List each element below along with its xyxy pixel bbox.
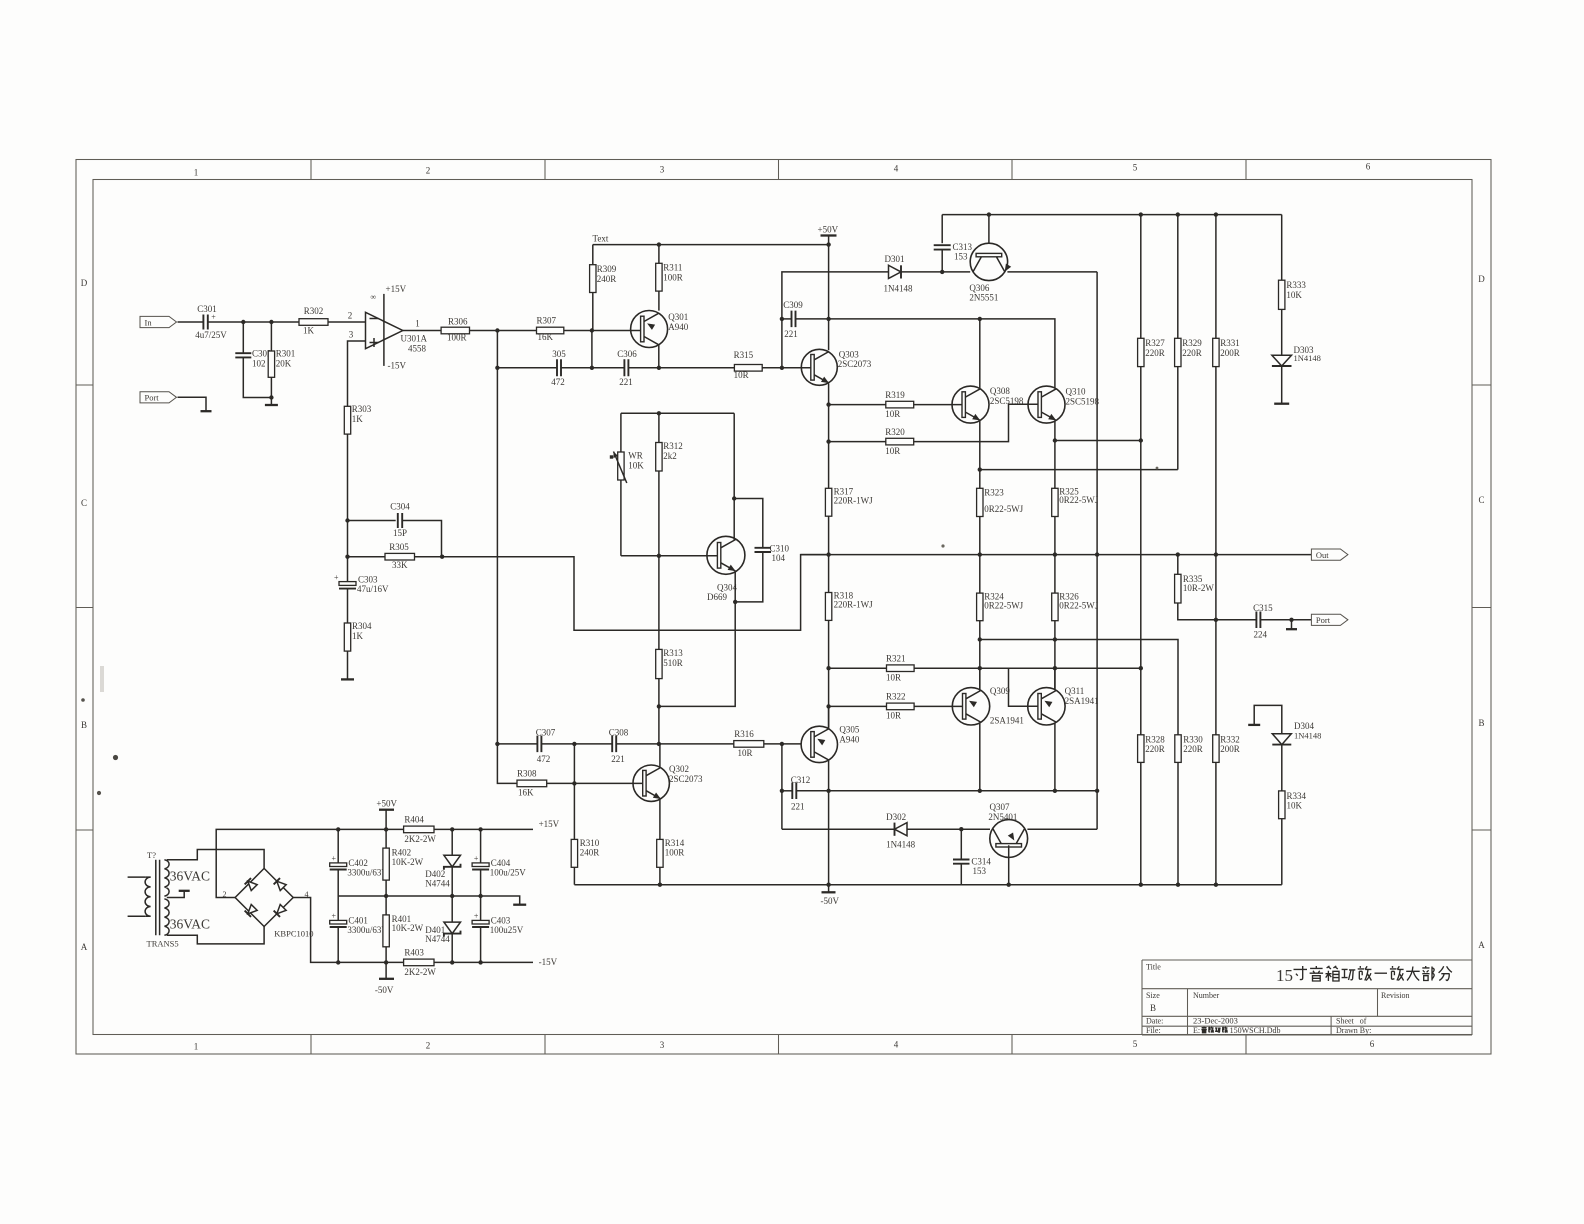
svg-text:1N4148: 1N4148 <box>886 839 915 849</box>
node junction rail R329 <box>1176 212 1180 216</box>
svg-text:102: 102 <box>252 358 266 368</box>
capacitor C312 <box>782 775 829 812</box>
resistor R313 <box>656 556 684 744</box>
svg-text:10R-2W: 10R-2W <box>1183 583 1215 593</box>
svg-text:16K: 16K <box>518 788 534 798</box>
node junction rail R317-R318 <box>826 552 830 556</box>
capacitor C308 <box>574 728 659 765</box>
svg-text:N4744: N4744 <box>425 934 450 944</box>
wire Q304 emitter down <box>659 572 735 707</box>
node junction C401 bottom <box>336 960 340 964</box>
wire R327 tie <box>1055 440 1141 442</box>
svg-text:104: 104 <box>772 553 786 563</box>
svg-text:240R: 240R <box>597 274 617 284</box>
resistor R308 <box>517 769 645 798</box>
ground under R301 <box>265 398 278 406</box>
node junction rail R331 <box>1214 212 1218 216</box>
wire C312 branch vertical <box>781 744 783 829</box>
wire long vertical Q306-Q307 <box>1096 272 1098 829</box>
transistor Q308 <box>952 386 1024 423</box>
wire Q303 emitter down <box>828 384 830 489</box>
svg-text:C307: C307 <box>536 728 556 738</box>
grid row labels right <box>1478 274 1485 950</box>
svg-text:2SC2073: 2SC2073 <box>838 359 872 369</box>
svg-text:TRANS5: TRANS5 <box>147 939 179 949</box>
svg-text:C314: C314 <box>971 857 991 867</box>
svg-text:200R: 200R <box>1220 348 1240 358</box>
resistor R332 <box>1213 620 1240 885</box>
svg-text:Q301: Q301 <box>668 312 688 322</box>
node junction R309 bottom on base wire <box>590 328 594 332</box>
svg-text:0R22-5WJ: 0R22-5WJ <box>984 504 1023 514</box>
node junction R321 wire Q311 emitter <box>1053 666 1057 670</box>
svg-text:Q303: Q303 <box>839 350 859 360</box>
svg-text:Date:: Date: <box>1146 1017 1163 1026</box>
capacitor C310 <box>734 499 789 602</box>
resistor R303 <box>344 404 372 434</box>
svg-text:220R: 220R <box>1145 744 1165 754</box>
transformer TRANS5 <box>128 850 210 949</box>
ground under D303 <box>1274 403 1289 405</box>
wire Q309-Q311 collector bus <box>829 790 1098 792</box>
node junction D402 top <box>450 827 454 831</box>
svg-text:10K-2W: 10K-2W <box>392 923 424 933</box>
svg-text:100R: 100R <box>447 333 467 343</box>
svg-text:23-Dec-2003: 23-Dec-2003 <box>1193 1016 1238 1026</box>
svg-text:R303: R303 <box>352 404 372 414</box>
svg-text:20K: 20K <box>276 358 292 368</box>
diode D303 <box>1272 345 1321 366</box>
resistor R311 <box>656 245 683 311</box>
svg-text:C303: C303 <box>358 575 378 585</box>
resistor R324 <box>977 555 1024 690</box>
svg-text:R404: R404 <box>404 815 424 825</box>
node junction collector bus Q309 <box>978 789 982 793</box>
port Out <box>1311 549 1348 560</box>
wire secondary top to bridge <box>167 850 264 869</box>
ground at mid rail <box>513 904 526 906</box>
svg-text:T?: T? <box>147 850 156 860</box>
power +50V (supply) <box>376 799 397 849</box>
wire R306 node down to R308 <box>497 744 517 784</box>
svg-text:Text: Text <box>593 234 609 244</box>
svg-text:150WSCH.Ddb: 150WSCH.Ddb <box>1230 1026 1281 1035</box>
svg-text:C315: C315 <box>1253 603 1273 613</box>
grid column labels top <box>194 162 1371 178</box>
svg-text:D669: D669 <box>707 592 727 602</box>
port Port (right) <box>1311 614 1348 625</box>
resistor R314 <box>657 838 685 885</box>
file path text <box>1193 1026 1280 1035</box>
svg-text:4: 4 <box>894 1040 899 1050</box>
svg-text:R319: R319 <box>885 390 905 400</box>
node junction C403 bottom <box>478 960 482 964</box>
resistor R335 <box>1175 555 1216 620</box>
wire +50V to Q303 collector <box>828 236 830 351</box>
svg-text:R321: R321 <box>886 654 906 664</box>
svg-text:Q305: Q305 <box>839 725 859 735</box>
svg-text:1N4148: 1N4148 <box>1294 730 1321 740</box>
resistor R322 <box>829 692 963 721</box>
capacitor C303 <box>334 557 389 623</box>
node junction C313 bottom <box>940 270 944 274</box>
wire Q306 emitter to long vertical <box>1007 271 1097 273</box>
wire R307 to Q301 base <box>564 330 643 332</box>
node junction Q308 emitter R329 tie <box>978 467 982 471</box>
node junction bottom rail R332 <box>1214 883 1218 887</box>
wire Q302 collector up <box>659 744 661 768</box>
capacitor C302 <box>235 322 271 398</box>
node junction C309 right on collector line <box>826 317 830 321</box>
svg-text:510R: 510R <box>663 658 683 668</box>
wire op-amp output to R306 <box>403 330 441 332</box>
svg-text:3: 3 <box>349 330 354 340</box>
resistor R321 <box>829 654 1141 683</box>
resistor R329 <box>1175 215 1203 470</box>
node junction under R301 <box>269 395 273 399</box>
title block <box>1142 960 1472 1035</box>
transistor Q310 <box>1028 386 1100 423</box>
svg-text:100R: 100R <box>665 848 685 858</box>
svg-text:0R22-5WJ: 0R22-5WJ <box>1059 600 1098 610</box>
node junction C310 top tap <box>732 496 736 500</box>
svg-text:-50V: -50V <box>375 985 394 995</box>
transistor Q305 <box>801 725 860 763</box>
svg-text:2: 2 <box>426 1041 431 1051</box>
svg-text:Port: Port <box>145 393 160 403</box>
transistor Q301 <box>631 311 689 348</box>
svg-text:Sheet of: Sheet of <box>1336 1017 1367 1026</box>
node junction C315 wire R332 <box>1214 618 1218 622</box>
node junction rail R325-R326 <box>1053 552 1057 556</box>
svg-text:R307: R307 <box>537 316 557 326</box>
svg-text:B: B <box>1150 1003 1156 1013</box>
svg-text:D: D <box>1478 274 1485 284</box>
wire D302 to Q307 base <box>907 828 990 830</box>
capacitor C403 <box>472 896 524 962</box>
node junction collector bus x829 <box>826 789 830 793</box>
port Port (left) <box>140 392 177 403</box>
svg-text:C306: C306 <box>617 349 637 359</box>
svg-text:4u7/25V: 4u7/25V <box>195 330 227 340</box>
capacitor C301 <box>195 304 227 340</box>
node junction Q310 emitter R327 tie <box>1053 438 1057 442</box>
node junction rail R327 <box>1139 212 1143 216</box>
resistor R403 <box>404 948 533 978</box>
svg-text:2N5551: 2N5551 <box>969 293 998 303</box>
node junction C308 right Q302 collector <box>657 742 661 746</box>
node junction C304 tap <box>345 518 349 522</box>
node junction D401 bottom <box>450 960 454 964</box>
svg-text:R320: R320 <box>885 427 905 437</box>
node junction R322 left <box>826 704 830 708</box>
resistor R301 <box>268 322 295 398</box>
node junction bottom rail Q307 <box>1007 883 1011 887</box>
power -15V label <box>539 957 558 967</box>
wire WR-R312 top <box>621 412 734 414</box>
resistor R318 <box>825 590 873 727</box>
svg-text:5: 5 <box>1133 163 1138 173</box>
svg-text:Drawn By:: Drawn By: <box>1336 1026 1371 1035</box>
svg-text:220R: 220R <box>1182 348 1202 358</box>
svg-text:2K2-2W: 2K2-2W <box>404 834 436 844</box>
svg-text:33K: 33K <box>392 560 408 570</box>
diode D302 <box>782 812 916 849</box>
svg-text:224: 224 <box>1254 630 1268 640</box>
wire vertical from R306 node down <box>496 331 498 744</box>
svg-text:2: 2 <box>348 311 353 321</box>
wire D301 anode branch <box>782 272 889 368</box>
node junction C314 top <box>959 827 963 831</box>
node junction R321 wire Q309 emitter <box>978 666 982 670</box>
node junction mid rail C404-C403 <box>478 894 482 898</box>
svg-text:47u/16V: 47u/16V <box>357 584 389 594</box>
resistor R312 <box>656 413 683 556</box>
svg-text:2N5401: 2N5401 <box>988 812 1017 822</box>
wire R309 node to C305 wire <box>591 331 593 368</box>
wire bridge minus to -50V rail <box>293 898 403 963</box>
resistor R328 <box>1138 668 1166 885</box>
svg-text:10K-2W: 10K-2W <box>392 857 424 867</box>
node junction +50V on +15V rail <box>384 827 388 831</box>
capacitor C309 <box>782 300 829 339</box>
node junction Q304 emitter / C310 <box>733 600 737 604</box>
svg-text:+: + <box>334 573 339 582</box>
wire R330 tie <box>980 640 1178 735</box>
wire Port to ground <box>178 397 207 410</box>
svg-text:240R: 240R <box>580 848 600 858</box>
node junction collector bus Q311 <box>1053 789 1057 793</box>
svg-text:D302: D302 <box>886 812 906 822</box>
svg-text:B: B <box>1478 718 1484 728</box>
svg-text:15: 15 <box>1276 966 1293 985</box>
svg-text:305: 305 <box>552 349 566 359</box>
svg-text:C: C <box>81 498 87 508</box>
wire ground to D304 anode <box>1254 705 1282 733</box>
wire Q302 emitter to R314 <box>659 799 661 839</box>
svg-text:1K: 1K <box>352 414 364 424</box>
resistor R310 <box>571 838 600 885</box>
svg-text:R330: R330 <box>1183 734 1203 744</box>
svg-text:Q308: Q308 <box>990 386 1010 396</box>
capacitor C304 <box>348 502 442 557</box>
svg-text:Size: Size <box>1146 991 1160 1000</box>
svg-text:2SA1941: 2SA1941 <box>1065 696 1099 706</box>
svg-text:472: 472 <box>551 377 565 387</box>
svg-text:10R: 10R <box>885 446 900 456</box>
node junction R320 left <box>826 439 830 443</box>
grid row labels left <box>81 278 88 952</box>
svg-text:10R: 10R <box>886 672 901 682</box>
svg-text:R333: R333 <box>1286 280 1306 290</box>
wire secondary bottom to bridge <box>167 927 264 944</box>
svg-text:+50V: +50V <box>818 225 839 235</box>
node junction R321 wire R328 tie <box>1139 666 1143 670</box>
node junction at C302 tap <box>241 320 245 324</box>
wire Q311 base jog <box>1009 668 1038 706</box>
potentiometer WR <box>610 413 645 556</box>
node junction rail R323-R324 <box>978 552 982 556</box>
node junction C305-C306 <box>590 366 594 370</box>
resistor R302 <box>299 306 328 336</box>
node junction C305 wire left <box>495 366 499 370</box>
svg-text:C313: C313 <box>953 242 973 252</box>
node junction rail long vertical <box>1095 552 1099 556</box>
resistor R319 <box>829 390 963 419</box>
svg-text:D301: D301 <box>885 254 905 264</box>
svg-text:+: + <box>474 912 479 921</box>
port In <box>140 316 177 327</box>
svg-text:Q307: Q307 <box>990 802 1010 812</box>
wire C301 to R302 <box>208 321 299 323</box>
svg-text:R314: R314 <box>665 838 685 848</box>
svg-text:Q309: Q309 <box>990 686 1010 696</box>
wire D301 cathode to Q306 base wire <box>901 271 970 273</box>
svg-text:Title: Title <box>1146 963 1161 972</box>
node junction mid rail D402-D401 <box>450 894 454 898</box>
svg-text:R313: R313 <box>663 648 683 658</box>
capacitor C313 <box>934 215 973 272</box>
svg-text:200R: 200R <box>1220 744 1240 754</box>
node junction R311 top <box>657 242 661 246</box>
wire op-amp pin3 <box>348 341 366 406</box>
svg-text:2SC5198: 2SC5198 <box>1066 396 1100 406</box>
node junction C307-C308 <box>572 742 576 746</box>
ground at Port <box>201 410 212 412</box>
svg-text:3: 3 <box>660 165 665 175</box>
wire Q309 collector down <box>979 723 981 791</box>
resistor R323 <box>977 488 1024 555</box>
svg-text:+15V: +15V <box>539 819 560 829</box>
node junction bottom rail R330 <box>1176 883 1180 887</box>
svg-text:1: 1 <box>194 168 199 178</box>
wire Q306 base to top rail <box>988 215 990 244</box>
transistor Q304 <box>707 536 745 602</box>
svg-text:100u/25V: 100u/25V <box>490 867 527 877</box>
resistor R320 <box>829 404 1038 456</box>
svg-text:+15V: +15V <box>386 284 407 294</box>
op-amp U301A <box>366 284 428 371</box>
svg-text:Port: Port <box>1316 615 1331 625</box>
wire Q304 collector up <box>733 413 735 540</box>
svg-text:0R22-5WJ: 0R22-5WJ <box>984 600 1023 610</box>
svg-text:220R: 220R <box>1145 348 1165 358</box>
resistor R402 <box>383 848 424 915</box>
svg-text:A940: A940 <box>668 322 688 332</box>
grid column labels bottom <box>194 1039 1138 1052</box>
wire output rail <box>801 554 1312 556</box>
wire feedback jog from R305 to output rail <box>442 555 828 631</box>
node junction R312 top <box>657 411 661 415</box>
pin 1 label <box>415 319 420 329</box>
node junction C312 left <box>780 789 784 793</box>
svg-text:3: 3 <box>660 1040 665 1050</box>
node junction R306 output <box>495 328 499 332</box>
svg-text:A: A <box>1478 940 1485 950</box>
transistor Q302 <box>633 764 703 802</box>
node junction R305 left <box>345 555 349 559</box>
svg-text:A940: A940 <box>839 734 859 744</box>
wire Q308 collector up <box>979 319 981 388</box>
wire Q304 base net <box>621 555 718 557</box>
resistor R307 <box>537 316 564 343</box>
wire Q309 emitter up <box>979 668 981 690</box>
svg-text:1K: 1K <box>303 326 315 336</box>
svg-text:100u25V: 100u25V <box>490 925 524 935</box>
node junction C309 left <box>780 317 784 321</box>
node junction R308 wire x574 <box>572 781 576 785</box>
svg-text:R309: R309 <box>597 264 617 274</box>
capacitor C315 <box>1216 603 1312 640</box>
node junction bottom rail -50V <box>826 883 830 887</box>
svg-text:Number: Number <box>1193 991 1220 1000</box>
svg-text:C301: C301 <box>197 304 217 314</box>
capacitor C401 <box>330 896 389 962</box>
svg-text:Out: Out <box>1316 550 1329 560</box>
resistor R404 <box>404 815 533 845</box>
svg-text:R331: R331 <box>1220 338 1240 348</box>
node junction at R301 tap <box>269 320 273 324</box>
node junction rail R335 <box>1176 552 1180 556</box>
node junction C315 ground tap <box>1289 618 1293 622</box>
svg-text:∞: ∞ <box>371 293 377 302</box>
svg-text:220R-1WJ: 220R-1WJ <box>834 496 873 506</box>
resistor R333 <box>1279 215 1307 356</box>
svg-text:36VAC: 36VAC <box>170 917 210 932</box>
svg-text:C308: C308 <box>609 728 629 738</box>
svg-text:R311: R311 <box>663 263 682 273</box>
svg-text:0R22-5WJ: 0R22-5WJ <box>1059 495 1098 505</box>
title text 15寸音箱功放-放大部分 <box>1276 966 1452 985</box>
resistor R325 <box>1052 486 1099 554</box>
node junction C404 top <box>478 827 482 831</box>
power -50V (amplifier) <box>821 885 840 906</box>
capacitor C314 <box>953 829 991 885</box>
svg-text:221: 221 <box>784 329 798 339</box>
svg-text:Q311: Q311 <box>1065 686 1085 696</box>
ground under R304 <box>341 678 354 680</box>
svg-text:4: 4 <box>894 164 899 174</box>
svg-text:15P: 15P <box>393 528 407 538</box>
resistor R330 <box>1175 734 1203 884</box>
node junction Q301 collector <box>657 366 661 370</box>
svg-text:2: 2 <box>426 166 431 176</box>
svg-text:221: 221 <box>611 754 625 764</box>
capacitor C404 <box>472 829 526 896</box>
svg-text:221: 221 <box>791 802 805 812</box>
node junction R321 left <box>826 666 830 670</box>
node junction bottom rail R328 <box>1139 883 1143 887</box>
node junction bottom rail R314 <box>658 883 662 887</box>
svg-text:C310: C310 <box>770 544 790 554</box>
pin 3 label <box>349 330 354 340</box>
resistor R316 <box>659 729 801 758</box>
svg-text:221: 221 <box>619 377 633 387</box>
resistor R334 <box>1279 745 1307 885</box>
diode D304 <box>1272 721 1321 745</box>
svg-text:16K: 16K <box>538 332 554 342</box>
svg-text:R316: R316 <box>734 729 754 739</box>
svg-text:R322: R322 <box>886 692 906 702</box>
svg-text:153: 153 <box>973 866 987 876</box>
node junction R326 bottom <box>1053 637 1057 641</box>
transistor Q307 <box>988 802 1027 857</box>
svg-text:5: 5 <box>1133 1039 1138 1049</box>
svg-text:220R: 220R <box>1183 744 1203 754</box>
svg-text:1: 1 <box>194 1042 199 1052</box>
transistor Q309 <box>952 686 1024 726</box>
bottom column 6 label <box>1370 1039 1375 1049</box>
